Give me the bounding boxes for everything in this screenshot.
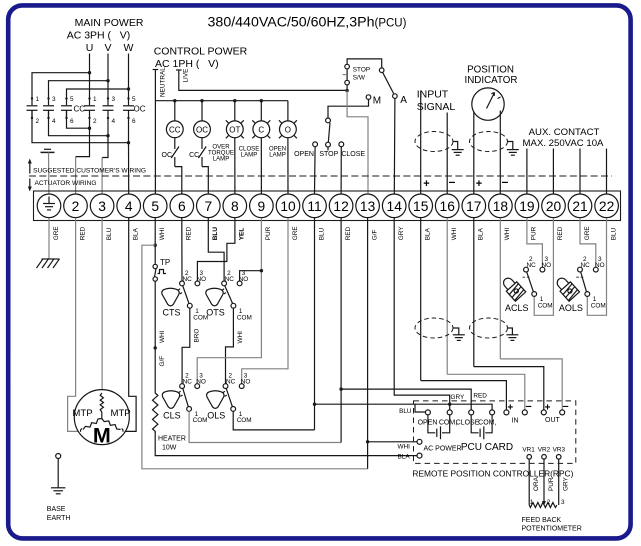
wire VR2 PUR wiper bbox=[542, 459, 555, 505]
terminal 11 bbox=[303, 194, 327, 218]
arrow customer side bbox=[28, 159, 32, 174]
svg-text:YEL: YEL bbox=[239, 228, 246, 241]
svg-text:4: 4 bbox=[125, 199, 133, 214]
svg-text:ORA: ORA bbox=[533, 476, 540, 491]
svg-text:WHI: WHI bbox=[159, 228, 166, 241]
PCU terminal IN+ bbox=[504, 402, 513, 415]
lamp C close bbox=[252, 120, 270, 138]
wire OLS COM to t11 rail bbox=[233, 411, 314, 430]
shield ellipse lower position bbox=[470, 318, 508, 338]
svg-text:OPEN: OPEN bbox=[294, 151, 314, 158]
svg-text:GRY: GRY bbox=[563, 477, 570, 491]
heater resistor bbox=[153, 391, 418, 456]
svg-text:3: 3 bbox=[561, 499, 565, 506]
selector switch M/A bbox=[366, 68, 407, 107]
svg-text:3: 3 bbox=[98, 199, 106, 214]
wire terminal 11 BLU rail to PCU OPEN bbox=[313, 218, 426, 430]
ground shield lower position bbox=[506, 328, 518, 340]
switch AOLS contacts bbox=[559, 256, 606, 313]
shield ellipse input signal bbox=[415, 132, 453, 152]
relay contact close-com bbox=[471, 415, 492, 439]
svg-text:WHI: WHI bbox=[159, 330, 166, 343]
wire aux to terminal 22 bbox=[606, 149, 608, 194]
terminal 4 bbox=[117, 194, 141, 218]
svg-text:POTENTIOMETER: POTENTIOMETER bbox=[522, 525, 582, 532]
svg-text:BLU: BLU bbox=[399, 408, 412, 415]
terminal 2 bbox=[64, 194, 88, 218]
svg-text:+: + bbox=[476, 178, 482, 190]
svg-text:G/F: G/F bbox=[371, 229, 378, 240]
terminal 10 bbox=[276, 194, 300, 218]
svg-text:+: + bbox=[507, 402, 513, 413]
wire terminal 9 to CLS NO bbox=[197, 218, 263, 384]
switch OLS cam bbox=[207, 391, 227, 421]
wire terminal 6 to CTS NC bbox=[181, 218, 183, 281]
PCU terminal COM2 bbox=[478, 410, 496, 427]
svg-text:COM: COM bbox=[591, 302, 606, 309]
svg-text:20: 20 bbox=[546, 199, 562, 214]
arrow actuator side bbox=[28, 179, 32, 192]
terminal 3 bbox=[90, 194, 114, 218]
svg-text:1: 1 bbox=[530, 499, 534, 506]
svg-text:11: 11 bbox=[307, 199, 321, 214]
wire aux to terminal 20 bbox=[552, 149, 554, 194]
wire terminal 13 down bbox=[367, 218, 369, 469]
svg-text:LAMP: LAMP bbox=[213, 155, 230, 162]
contactor CC pole 3-4 bbox=[43, 96, 56, 125]
NC contact OC under coil CC bbox=[162, 138, 182, 194]
svg-text:CLOSE: CLOSE bbox=[456, 419, 480, 426]
svg-text:U: U bbox=[86, 42, 94, 54]
wire ACLS COM to terminal 20 bbox=[534, 218, 553, 315]
wire terminal 3 to motor bbox=[101, 218, 103, 390]
svg-text:COM: COM bbox=[538, 302, 553, 309]
svg-text:380/440VAC/50/60HZ,3Ph(PCU): 380/440VAC/50/60HZ,3Ph(PCU) bbox=[208, 15, 407, 31]
svg-text:O: O bbox=[285, 125, 291, 134]
svg-text:M: M bbox=[93, 424, 111, 448]
svg-text:ACLS: ACLS bbox=[505, 303, 529, 313]
svg-text:GRE: GRE bbox=[584, 226, 591, 240]
svg-text:GRY: GRY bbox=[398, 226, 405, 240]
svg-text:2: 2 bbox=[36, 118, 40, 125]
svg-text:INPUT: INPUT bbox=[417, 89, 449, 101]
svg-text:BLU: BLU bbox=[318, 227, 325, 240]
pushbutton CLOSE stub bbox=[339, 142, 365, 194]
svg-text:STOP: STOP bbox=[319, 151, 338, 158]
svg-text:3: 3 bbox=[52, 96, 56, 103]
wire CLS COM to t12 rail bbox=[189, 411, 341, 442]
svg-text:NC: NC bbox=[225, 276, 235, 283]
svg-text:3: 3 bbox=[112, 96, 116, 103]
wire input + to terminal 15 bbox=[420, 91, 422, 194]
svg-text:PUR: PUR bbox=[548, 477, 555, 491]
NC contact CC under coil OC bbox=[189, 138, 208, 194]
svg-text:MAIN POWER: MAIN POWER bbox=[75, 17, 144, 29]
shield ellipse position bbox=[470, 132, 508, 152]
svg-text:NO: NO bbox=[196, 379, 206, 386]
wire CC6 to OC2 to terminal 2 bbox=[67, 110, 92, 194]
wire meter to terminal 18 bbox=[499, 111, 501, 194]
svg-text:19: 19 bbox=[519, 199, 535, 214]
svg-text:W: W bbox=[124, 42, 134, 54]
svg-text:17: 17 bbox=[466, 199, 481, 214]
wire aux to terminal 21 bbox=[579, 149, 581, 194]
terminal 22 bbox=[595, 194, 619, 218]
svg-text:9: 9 bbox=[258, 199, 266, 214]
svg-text:OTS: OTS bbox=[206, 307, 225, 317]
svg-text:WHI: WHI bbox=[504, 228, 511, 241]
svg-text:V: V bbox=[104, 42, 111, 54]
svg-text:S/W: S/W bbox=[353, 74, 366, 81]
svg-text:COM,: COM, bbox=[439, 419, 457, 426]
wire phase W bbox=[67, 54, 131, 106]
wire OT lamp to terminal 8 bbox=[234, 138, 236, 194]
svg-text:CTS: CTS bbox=[163, 307, 181, 317]
terminal 12 bbox=[329, 194, 353, 218]
contactor OC pole 1-2 bbox=[84, 96, 97, 128]
contactor CC pole 5-6 bbox=[61, 96, 74, 125]
svg-text:5: 5 bbox=[70, 96, 74, 103]
svg-text:LAMP: LAMP bbox=[269, 151, 286, 158]
separator dashed line bbox=[29, 175, 612, 177]
svg-text:5: 5 bbox=[151, 199, 159, 214]
wire terminal 17 to PCU OUT+ bbox=[474, 218, 544, 410]
wire terminal 12 RED to PCU CLOSE bbox=[339, 218, 487, 443]
terminal 14 bbox=[382, 194, 406, 218]
terminal 7 bbox=[197, 194, 221, 218]
meter position indicator bbox=[472, 88, 504, 120]
earth hatch 7777 bbox=[37, 259, 60, 268]
svg-text:CC: CC bbox=[74, 104, 86, 113]
wire terminal 15 to PCU IN+ bbox=[420, 218, 422, 381]
relay contact open-com bbox=[428, 415, 450, 439]
coil OC bbox=[194, 121, 211, 138]
svg-text:CONTROL POWER: CONTROL POWER bbox=[154, 46, 248, 58]
svg-text:LIVE: LIVE bbox=[182, 69, 189, 83]
PCU terminal VR1 bbox=[522, 447, 535, 460]
terminal 21 bbox=[568, 194, 592, 218]
wire VR1 ORA bbox=[529, 459, 540, 505]
svg-text:+: + bbox=[545, 402, 551, 413]
svg-text:PCU CARD: PCU CARD bbox=[461, 442, 513, 453]
svg-text:HEATER: HEATER bbox=[158, 435, 186, 442]
wire terminal 4 to motor bbox=[125, 218, 136, 432]
svg-text:EARTH: EARTH bbox=[47, 515, 71, 522]
svg-text:OUT: OUT bbox=[545, 417, 561, 424]
svg-text:NC: NC bbox=[581, 262, 591, 269]
terminal 1 ground bbox=[37, 194, 61, 218]
svg-text:SUGGESTED CUSTOMER'S WIRING: SUGGESTED CUSTOMER'S WIRING bbox=[33, 167, 146, 174]
terminal 19 bbox=[515, 194, 539, 218]
svg-text:RED: RED bbox=[79, 226, 86, 240]
coil CC bbox=[166, 121, 183, 138]
svg-text:G/F: G/F bbox=[159, 356, 166, 367]
svg-text:8: 8 bbox=[231, 199, 239, 214]
switch CTS cam bbox=[162, 288, 182, 317]
terminal 8 bbox=[223, 194, 247, 218]
wire CTS COM to CLS NC bbox=[182, 308, 201, 384]
svg-text:RED: RED bbox=[345, 226, 352, 240]
svg-text:6: 6 bbox=[70, 118, 74, 125]
svg-text:21: 21 bbox=[572, 199, 587, 214]
svg-text:6: 6 bbox=[132, 118, 136, 125]
switch OTS contacts bbox=[222, 270, 252, 322]
svg-text:2: 2 bbox=[93, 118, 97, 125]
svg-text:+: + bbox=[423, 178, 429, 190]
PCU terminal AC power WHI bbox=[417, 439, 422, 444]
wire C lamp to terminal 9 bbox=[260, 138, 262, 194]
wire meter to terminal 17 bbox=[473, 112, 475, 194]
svg-text:AUX. CONTACT: AUX. CONTACT bbox=[529, 127, 600, 138]
terminal 16 bbox=[435, 194, 459, 218]
svg-text:BLU: BLU bbox=[610, 227, 617, 240]
wire O lamp to terminal 10 bbox=[287, 138, 289, 194]
pushbutton STOP NC bbox=[319, 118, 338, 158]
junction t13 AC power bbox=[366, 440, 369, 443]
svg-text:BLA: BLA bbox=[478, 227, 485, 240]
switch CLS contacts bbox=[180, 373, 208, 425]
svg-text:RED: RED bbox=[557, 226, 564, 240]
svg-text:AC POWER: AC POWER bbox=[424, 446, 462, 453]
ground shield position bbox=[507, 142, 519, 156]
svg-text:10W: 10W bbox=[162, 444, 177, 451]
svg-text:NO: NO bbox=[595, 262, 605, 269]
svg-text:4: 4 bbox=[112, 118, 116, 125]
svg-text:NC: NC bbox=[183, 379, 193, 386]
svg-text:BASE: BASE bbox=[47, 506, 66, 513]
pushbutton OPEN stub bbox=[294, 142, 317, 194]
lamp O open bbox=[279, 120, 297, 138]
svg-text:OC: OC bbox=[134, 104, 146, 113]
PCU terminal OUT+ bbox=[541, 402, 550, 415]
svg-text:18: 18 bbox=[493, 199, 509, 214]
svg-text:OC: OC bbox=[162, 152, 173, 159]
PCU terminal IN- bbox=[522, 401, 531, 415]
svg-text:VR2: VR2 bbox=[538, 447, 551, 454]
feedback potentiometer resistor bbox=[529, 499, 565, 508]
wire terminal 10 to OLS NO bbox=[242, 218, 288, 384]
svg-text:OLS: OLS bbox=[207, 411, 225, 421]
wire CC2 to OC6 to terminal 4 bbox=[32, 110, 130, 194]
svg-text:14: 14 bbox=[387, 199, 403, 214]
switch OLS contacts bbox=[223, 373, 252, 425]
terminal 20 bbox=[542, 194, 566, 218]
svg-text:–: – bbox=[562, 401, 568, 413]
svg-text:C: C bbox=[258, 125, 264, 134]
PCU terminal AC power BLA bbox=[417, 453, 422, 458]
svg-text:CLS: CLS bbox=[163, 411, 181, 421]
svg-text:OT: OT bbox=[229, 125, 240, 134]
PCU terminal CLOSE bbox=[456, 410, 480, 427]
svg-text:PUR: PUR bbox=[531, 226, 538, 240]
svg-text:NEUTRAL: NEUTRAL bbox=[159, 67, 166, 97]
svg-text:WHI: WHI bbox=[451, 228, 458, 241]
wire VR3 GRY bbox=[559, 459, 570, 505]
svg-text:AOLS: AOLS bbox=[559, 303, 583, 313]
switch OTS cam bbox=[206, 288, 226, 317]
svg-text:6: 6 bbox=[178, 199, 186, 214]
ground shield lower input bbox=[453, 328, 465, 340]
svg-text:WHI: WHI bbox=[237, 331, 244, 344]
svg-text:CC: CC bbox=[169, 125, 181, 134]
svg-text:GRE: GRE bbox=[53, 226, 60, 240]
svg-text:OC: OC bbox=[196, 125, 208, 134]
svg-text:5: 5 bbox=[132, 96, 136, 103]
wire input - to terminal 16 bbox=[446, 113, 448, 194]
wire terminal 13 to WHI AC power bbox=[368, 442, 418, 451]
terminal 6 bbox=[170, 194, 194, 218]
svg-text:NC: NC bbox=[183, 276, 193, 283]
svg-text:REMOTE POSITION CONTROLLER(RPC: REMOTE POSITION CONTROLLER(RPC) bbox=[412, 469, 573, 479]
svg-text:M: M bbox=[373, 95, 381, 106]
terminal 15 bbox=[409, 194, 433, 218]
terminal 18 bbox=[489, 194, 513, 218]
svg-text:12: 12 bbox=[333, 199, 348, 214]
svg-text:BLU: BLU bbox=[106, 227, 113, 240]
wire NEUTRAL bbox=[153, 67, 167, 194]
svg-text:GRE: GRE bbox=[292, 226, 299, 240]
shield ellipse lower input bbox=[415, 318, 453, 338]
wire OTS COM to OLS NC bbox=[226, 308, 245, 384]
svg-text:2: 2 bbox=[72, 199, 80, 214]
contactor OC pole 3-4 bbox=[103, 96, 116, 136]
svg-text:BLA: BLA bbox=[133, 227, 140, 240]
svg-text:–: – bbox=[525, 401, 531, 413]
svg-text:1: 1 bbox=[93, 96, 97, 103]
svg-text:COM: COM bbox=[237, 314, 252, 321]
svg-text:COM: COM bbox=[193, 417, 208, 424]
svg-text:–: – bbox=[449, 175, 456, 189]
wire AOLS COM to terminal 22 bbox=[587, 218, 606, 315]
PCU terminal COM1 bbox=[439, 410, 457, 427]
terminal 5 bbox=[143, 194, 167, 218]
PCU terminal OUT- bbox=[560, 401, 569, 415]
wire terminal 2 to motor bbox=[68, 218, 79, 432]
supply earth symbol bbox=[41, 149, 55, 194]
terminal 9 bbox=[250, 194, 274, 218]
svg-text:22: 22 bbox=[599, 199, 614, 214]
svg-text:NO: NO bbox=[241, 379, 251, 386]
wire branch WHI to AC power bbox=[142, 245, 368, 469]
wire terminal 16 to PCU IN- bbox=[447, 218, 525, 410]
wire A to terminal 14 bbox=[393, 98, 396, 193]
PCU terminal VR3 bbox=[553, 447, 566, 460]
svg-text:LAMP: LAMP bbox=[241, 151, 258, 158]
switch CLS cam bbox=[162, 391, 182, 421]
svg-text:GRY: GRY bbox=[451, 394, 465, 401]
wire terminal 7 to OTS NC bbox=[208, 218, 224, 281]
wire LIVE bbox=[176, 69, 347, 91]
svg-text:BLU: BLU bbox=[212, 227, 219, 241]
terminal strip box bbox=[34, 191, 621, 221]
PCU terminal OPEN bbox=[418, 410, 438, 427]
switch STOP S/W bbox=[343, 59, 382, 92]
svg-text:4: 4 bbox=[52, 118, 56, 125]
switch AOLS cam barrel bbox=[554, 275, 580, 302]
svg-text:NC: NC bbox=[527, 262, 537, 269]
switch CTS contacts bbox=[180, 270, 209, 322]
svg-text:INDICATOR: INDICATOR bbox=[465, 75, 518, 86]
wire CC4 to OC4 to terminal 3 bbox=[49, 110, 110, 194]
svg-text:1: 1 bbox=[36, 96, 40, 103]
svg-text:MTP: MTP bbox=[72, 408, 92, 419]
svg-text:CC: CC bbox=[189, 152, 199, 159]
svg-text:MAX. 250VAC 10A: MAX. 250VAC 10A bbox=[523, 138, 604, 149]
wire stop s/w to terminal 13 bbox=[347, 91, 368, 194]
contactor OC pole 5-6 bbox=[123, 96, 136, 143]
svg-text:A: A bbox=[400, 95, 407, 106]
svg-text:RED: RED bbox=[186, 226, 193, 240]
svg-text:15: 15 bbox=[413, 199, 429, 214]
svg-text:PUR: PUR bbox=[265, 226, 272, 240]
svg-text:POSITION: POSITION bbox=[467, 64, 514, 75]
svg-text:CLOSE: CLOSE bbox=[341, 151, 365, 158]
svg-text:SIGNAL: SIGNAL bbox=[417, 101, 456, 113]
svg-text:BRO: BRO bbox=[194, 329, 201, 343]
svg-text:VR1: VR1 bbox=[522, 447, 535, 454]
svg-text:FEED BACK: FEED BACK bbox=[522, 517, 562, 524]
svg-text:MTP: MTP bbox=[110, 408, 130, 419]
svg-text:COM: COM bbox=[237, 417, 252, 424]
svg-text:COM,: COM, bbox=[478, 419, 496, 426]
contactor CC pole 1-2 bbox=[27, 96, 40, 125]
wire terminal 1 to earth hatch bbox=[48, 218, 50, 260]
svg-text:AC 3PH ( V): AC 3PH ( V) bbox=[67, 30, 131, 42]
svg-text:7: 7 bbox=[204, 199, 212, 214]
motor M bbox=[72, 390, 130, 448]
lamp OT over torque bbox=[226, 120, 244, 138]
svg-text:NO: NO bbox=[542, 262, 552, 269]
svg-text:BLA: BLA bbox=[425, 227, 432, 240]
svg-text:13: 13 bbox=[360, 199, 376, 214]
svg-text:16: 16 bbox=[440, 199, 456, 214]
wire phase U bbox=[32, 54, 91, 106]
wire BLU rail to PCU COM2 bbox=[415, 403, 492, 411]
terminal 13 bbox=[356, 194, 380, 218]
svg-text:TP: TP bbox=[160, 258, 170, 267]
terminal 17 bbox=[462, 194, 486, 218]
svg-text:NC: NC bbox=[226, 379, 236, 386]
wire aux to terminal 19 bbox=[526, 149, 528, 194]
wire terminal 14 GRY to PCU COM1 bbox=[394, 218, 465, 410]
base earth terminal bbox=[51, 454, 65, 494]
wire M to stop pushbutton bbox=[328, 99, 369, 118]
svg-text:VR3: VR3 bbox=[553, 447, 566, 454]
wire terminal 21 to AOLS NO bbox=[580, 218, 596, 267]
svg-text:BLA: BLA bbox=[398, 454, 411, 461]
svg-text:2: 2 bbox=[547, 499, 551, 506]
wire terminal 18 to PCU OUT- bbox=[500, 218, 562, 410]
wire terminal 8 to CTS NO bbox=[197, 218, 235, 281]
switch ACLS contacts bbox=[505, 256, 553, 313]
wire terminal 19 to ACLS NO bbox=[527, 218, 543, 267]
svg-text:10: 10 bbox=[280, 199, 296, 214]
ground shield input bbox=[452, 142, 464, 156]
svg-text:IN: IN bbox=[512, 417, 519, 424]
svg-text:ACTUATOR WIRING: ACTUATOR WIRING bbox=[35, 180, 97, 187]
wire terminal 5 with TP contact bbox=[153, 218, 170, 391]
wire neutral bus bbox=[155, 99, 288, 121]
svg-text:STOP: STOP bbox=[353, 67, 370, 74]
PCU card dashed box bbox=[414, 401, 576, 464]
wire phase V bbox=[49, 54, 110, 106]
wire OTS NO to terminal 9 bbox=[240, 271, 262, 281]
PCU terminal VR2 bbox=[538, 447, 551, 460]
svg-text:RED: RED bbox=[473, 393, 487, 400]
svg-text:WHI: WHI bbox=[398, 444, 411, 451]
svg-text:–: – bbox=[502, 175, 509, 189]
switch ACLS cam barrel bbox=[500, 275, 526, 302]
